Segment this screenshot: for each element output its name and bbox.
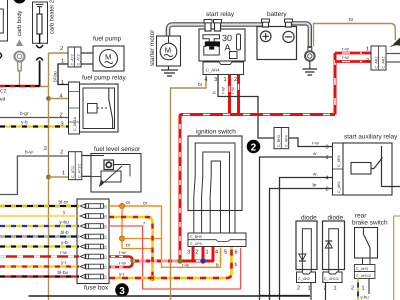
connector C_BH5 / C_AP6 [188,233,246,247]
relay switch [109,88,113,129]
svg-text:br: br [198,82,203,88]
svg-text:br: br [349,17,354,23]
wire r-w bus to ignition pins [133,260,180,263]
svg-text:r-w: r-w [312,142,319,147]
svg-text:30: 30 [222,33,232,43]
wire r-w hairpin bottom (fuse 7) [109,262,133,267]
svg-text:4: 4 [326,176,329,182]
svg-text:2: 2 [60,46,63,52]
junction dot (blue) [200,258,205,263]
wire b: connector to start aux relay pin 3 [289,138,333,147]
svg-text:3: 3 [326,145,329,151]
svg-text:15: 15 [103,266,107,270]
svg-text:3: 3 [61,122,64,128]
junction dot r-w (olive) on ignition bus [177,258,182,263]
connector C_AR1 [333,143,344,195]
diode 1 symbol (cathode down) [299,254,306,261]
wire b (pin 3 to mid connector) [218,75,274,138]
svg-text:y-b: y-b [21,120,28,126]
wire b bottom bus [260,295,311,297]
wire b below diode1 pin 1 [310,283,312,300]
junction dot br [46,96,51,101]
carb heater 1 (partial box at left edge) [0,0,8,41]
svg-text:rear: rear [355,213,367,220]
svg-text:bl-bu: bl-bu [53,71,59,82]
svg-text:1: 1 [308,286,311,292]
wire b (bottom left long) [29,295,311,297]
svg-text:C_AH1/2: C_AH1/2 [356,274,371,278]
wire r (pin 1 down to bus) [228,75,231,115]
marker 2 [247,140,261,154]
svg-text:battery: battery [267,11,287,18]
wires C_AR2 to page edge [386,54,400,63]
brake switch symbol [363,228,370,259]
svg-text:y-b: y-b [61,240,68,246]
wire r pin1 to bus [212,247,215,261]
fuel pump relay outer box [80,84,119,132]
svg-text:r-w: r-w [119,262,126,267]
svg-text:3: 3 [187,250,190,256]
fuse 1 [80,204,103,209]
wire r-w to C_AR2 pin 1 [335,52,371,55]
aux relay coil [351,163,371,175]
svg-text:carb body: carb body [16,10,23,36]
fuel level sensor box [91,154,141,193]
junction dot y [150,275,155,280]
diode 2 symbol (cathode up) [325,242,332,249]
svg-text:1: 1 [206,250,209,256]
wire br (tan) long vertical left [48,53,50,300]
svg-text:C_AR2: C_AR2 [375,57,379,69]
bullet connector hooks [36,45,43,48]
fuse 7 [80,264,103,269]
svg-text:1: 1 [334,286,337,292]
diode 1 box [296,221,317,270]
small box bottom right [230,52,238,59]
tan stub at battery ground [313,24,315,47]
wire r-w main bus [180,115,335,262]
wire r-w to C_AR2 pin 2 [335,60,371,63]
svg-text:M: M [105,53,111,62]
relay terminal post 1 [204,20,212,32]
fuse 6 [80,254,103,259]
relay solenoid (black) [205,41,220,46]
svg-text:C_AT2: C_AT2 [77,54,81,65]
wire r (pin 2 down to bus) [237,75,240,115]
minus symbol [283,31,294,42]
svg-text:10: 10 [103,276,107,280]
wire br (C_AR4 pin4 net): left then long down [171,75,207,300]
connector C_BH3 / C_AP4 [274,128,289,149]
switch wafer U2 [203,152,230,233]
svg-text:C_AR2: C_AR2 [382,57,386,69]
svg-text:4: 4 [215,250,218,256]
svg-text:2: 2 [351,286,354,292]
svg-text:10: 10 [103,225,107,229]
wire bl: hook down to r-b wire [39,61,41,87]
wire y (fuse 2 output, yellow w/ red dash) [109,217,153,278]
battery box [257,27,297,60]
relay coil [88,104,98,114]
svg-text:br: br [313,183,318,189]
svg-text:bl-or: bl-or [59,199,69,205]
svg-text:fuel pump: fuel pump [93,36,122,43]
svg-text:r-w: r-w [342,48,349,53]
fuel pump box [93,46,124,71]
wire y-r bus (fuse 8 to ignition pin 5) [109,247,232,278]
svg-text:C_AP1A: C_AP1A [73,116,77,131]
sensor inner wire [91,156,130,177]
svg-text:r-w: r-w [119,251,126,256]
rear brake switch box [355,228,378,259]
wire br: aux relay pin 2 down [270,189,333,300]
diode 2 internal wires [329,229,339,272]
ring terminal (carb body ground) [15,52,25,71]
wire r pin2 to bus [202,247,205,261]
svg-text:C_AR4: C_AR4 [206,68,220,73]
wire br: ring terminal to junction [20,71,49,87]
svg-text:2: 2 [234,77,237,83]
connector C_AH3 (brake, top) [354,265,375,272]
wire br to fuel level sensor pin 1 [49,176,69,178]
hook at left edge (carb heater 1 lead) [0,53,2,59]
svg-text:r-w: r-w [342,56,349,61]
marker 1 (top, mostly cut off) [13,0,26,4]
ring terminal (battery ground) [305,47,315,61]
wire or: main run to ignition pin 4 [162,206,221,267]
wire to ground [168,66,170,70]
svg-text:y-r: y-r [119,273,125,278]
svg-text:y-r: y-r [61,261,67,266]
start relay box [199,29,245,61]
svg-text:start auxiliary relay: start auxiliary relay [344,134,398,141]
svg-text:2: 2 [366,58,369,64]
svg-text:1: 1 [62,171,65,177]
svg-text:ignition switch: ignition switch [196,129,236,136]
wire or branch 2 [122,248,152,250]
svg-text:C_AP4: C_AP4 [284,135,288,147]
svg-text:b-gr: b-gr [20,111,29,117]
wire or: fuse 1 output [109,205,162,207]
wire r-w riser to C_AR2 [334,53,337,115]
start auxiliary relay box [343,143,392,195]
svg-text:carb heater 2: carb heater 2 [49,0,56,34]
svg-text:start relay: start relay [206,11,235,18]
relay body box [204,46,220,55]
wires connector to sensor [82,156,91,177]
svg-text:2: 2 [297,286,300,292]
connector C_AH2 (diode 1) [297,272,316,283]
wires box to connector [363,258,371,265]
svg-text:15: 15 [103,215,107,219]
ground (starter motor) [161,70,178,76]
wire r-b (left edge to carb heater 2) [0,85,40,87]
starter motor box [157,36,181,66]
connector C_AR4 [203,62,244,75]
fuse 8 [80,274,103,279]
svg-text:r-w: r-w [182,264,189,269]
wire y-r (fuse box input) [0,265,79,267]
wire starter motor to box top [168,36,170,43]
wire b below diode2 pin 2 [325,283,327,300]
connector C_AH1/2 (brake, bottom) [354,272,375,279]
fuse 2 [80,214,103,219]
wire br (battery area to off-page arrow) [313,24,395,41]
gray cable battery minus to ground ring [291,23,310,48]
wire to ground [309,61,311,69]
wire bl-bu: pump pin 1 down to relay pin 1 [58,64,69,85]
starter motor M circle [160,43,177,60]
svg-text:fuse box: fuse box [84,285,109,292]
svg-text:1: 1 [326,155,329,161]
svg-text:y-bu: y-bu [60,219,70,225]
wire r (fuse 3 output thin red) [109,226,241,289]
svg-text:C_AT/2: C_AT/2 [71,166,75,178]
fuse 4 [80,234,103,239]
svg-text:C_BH5: C_BH5 [190,235,202,239]
wire bl-or (fuse box input) [0,205,79,207]
plus symbol [260,31,271,42]
aux relay switch [371,146,400,187]
wires connector to pump motor [81,53,93,64]
battery + terminal post [262,19,270,27]
connector C_AT1/2 [69,152,82,180]
wire b-w [0,156,69,195]
wire bl-bu (fuse box input) [0,275,79,277]
fuel pump motor M [100,50,118,68]
svg-text:r-w: r-w [231,87,236,94]
svg-text:C_AH1/2: C_AH1/2 [324,277,339,281]
svg-text:2: 2 [60,150,63,156]
svg-text:6: 6 [235,250,238,256]
svg-text:b: b [212,91,218,94]
wire r-w (fuse box input) [0,255,79,258]
svg-text:b-w: b-w [25,150,33,156]
ground (battery) [303,69,318,75]
heater element (resistor) [36,4,44,14]
svg-text:fuel pump relay: fuel pump relay [82,75,126,82]
svg-text:y-bu: y-bu [361,295,370,300]
connector C_AP1A [69,82,80,134]
switch wafer U1 [195,143,235,233]
relay terminal post 2 [214,20,222,32]
gray battery cable: starter to relay post 1 [168,25,204,37]
wire y-b (fuse box input) [0,245,79,247]
gray battery cable: relay post 2 to battery [221,22,262,27]
svg-text:or: or [126,201,131,206]
svg-text:b: b [216,263,219,269]
variable resistor [101,171,121,182]
svg-text:2: 2 [326,187,329,193]
svg-text:15: 15 [103,246,107,250]
diode 1 internal wires [302,229,311,272]
svg-text:C_BH3: C_BH3 [277,135,281,147]
junction dot or 2 [119,236,124,241]
svg-text:2: 2 [251,142,257,153]
svg-text:3: 3 [214,77,217,83]
connector C_AH1/2 (diode 2) [323,272,342,283]
wire b-gr [0,117,69,119]
fuse 3 [80,224,103,229]
wire from heater to connector hook [39,34,41,44]
svg-text:C_AR1: C_AR1 [337,155,341,167]
svg-text:b: b [235,262,238,268]
svg-text:C_AP6: C_AP6 [190,242,202,246]
svg-text:C_AT1/2: C_AT1/2 [78,164,82,178]
svg-text:5: 5 [224,250,227,256]
svg-text:1: 1 [61,59,64,65]
relay dashed link [97,107,108,109]
wire w: aux relay pin 4 down [280,178,333,300]
wire overlays crossing the bus [142,255,144,267]
svg-text:brake switch: brake switch [352,220,388,227]
svg-text:w: w [313,152,317,157]
fuse element [237,34,241,50]
svg-text:bl-b: bl-b [61,230,69,236]
svg-text:2: 2 [60,113,63,119]
svg-text:1: 1 [362,286,365,292]
svg-text:1: 1 [224,77,227,83]
svg-text:2: 2 [196,250,199,256]
wire y-bu below brake pin 2 [357,279,359,300]
wire br to fuel pump connector [49,52,69,54]
off-page arrow (top right) [394,38,400,45]
wire br to relay pin 4 [49,98,70,100]
fuse box [77,199,109,284]
svg-text:10: 10 [103,236,107,240]
connector C_AT2 (fuel pump) [68,47,81,67]
off-page arrow under carb body [16,40,23,47]
fuse 5 [80,244,103,249]
svg-text:4: 4 [205,77,208,83]
svg-text:r-w: r-w [222,87,227,94]
wire b below brake pin 1 [368,279,370,295]
svg-text:1: 1 [366,47,369,53]
wire w: aux relay pin 1 down-left [260,157,333,300]
carb heater 2 box [33,2,48,43]
diode 2 box [323,221,345,270]
wire y-b (to relay pin 3) [0,125,69,127]
svg-text:ed: ed [0,97,6,103]
orange highlight box (bottom right, cut off) [394,216,400,300]
junction dot r-w (olive) [130,258,135,263]
svg-text:or: or [143,202,148,207]
svg-text:r-w: r-w [60,251,67,256]
wire or branch 1 [122,238,162,240]
wire r pin3 to bus [192,247,195,261]
junction dot br 2 [46,175,51,180]
svg-text:10: 10 [103,256,107,260]
wire r-w hairpin top (fuse 6) [109,257,133,262]
svg-text:C_AH3: C_AH3 [356,267,368,271]
relay contact T-bar [203,35,220,42]
svg-text:w: w [313,173,317,178]
svg-text:fuel level sensor: fuel level sensor [94,146,141,153]
switch wafer U3 [211,161,220,233]
ignition switch box [188,136,242,211]
relay inner box [83,88,115,129]
svg-text:C2: C2 [0,89,6,95]
battery - terminal post [285,19,293,27]
wire y (fuse box input) [0,215,79,217]
marker 3 [115,283,129,297]
svg-text:3: 3 [119,286,125,297]
svg-text:starter motor: starter motor [149,29,156,66]
svg-text:bl-bu: bl-bu [58,270,69,276]
svg-text:C_AR1: C_AR1 [337,181,341,193]
svg-text:M: M [165,46,171,55]
resistor arrow [101,166,123,186]
connector C_AR2 [371,46,386,70]
junction dot or 1 [119,203,124,208]
svg-text:or: or [126,244,131,249]
svg-text:C_AT2: C_AT2 [70,54,74,65]
wire y-bu (fuse box input) [0,225,79,227]
svg-text:C_AH2: C_AH2 [298,277,310,281]
sender symbol (square with ring) [104,160,114,170]
wire or vertical at 122 [121,206,123,249]
wire bl-b (fuse box input) [0,235,79,237]
svg-text:br: br [43,145,49,150]
svg-text:4: 4 [60,94,63,100]
svg-text:1: 1 [61,80,64,86]
svg-text:10: 10 [103,205,107,209]
